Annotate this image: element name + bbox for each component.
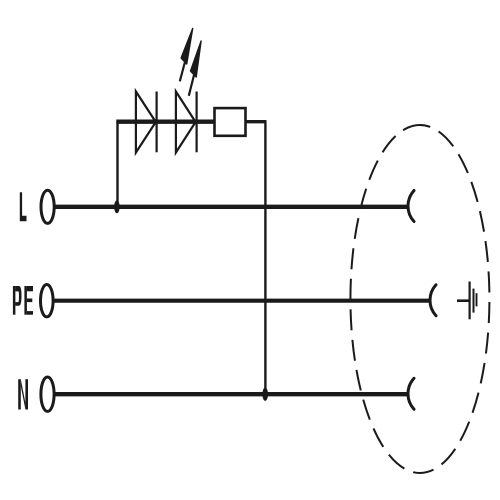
wire branch top right segment (246, 120, 267, 123)
socket contact L (408, 191, 414, 222)
diode D1 (136, 92, 157, 153)
terminal circle N (41, 377, 54, 411)
label N (18, 379, 28, 409)
LED arrow 1 (180, 28, 193, 81)
socket contact PE (430, 285, 436, 316)
wire PE line (53, 299, 431, 303)
label PE (13, 286, 33, 315)
wire left branch riser (116, 122, 118, 207)
wire right branch drop (264, 122, 266, 395)
junction node on N (262, 388, 268, 401)
wire L line (54, 205, 408, 209)
label L (20, 192, 27, 221)
wire branch top left segment (116, 120, 214, 124)
socket contact N (408, 378, 414, 409)
LED arrow 2 (189, 41, 201, 96)
junction node on L (114, 200, 120, 213)
resistor R1 (215, 108, 246, 136)
terminal circle L (41, 190, 54, 223)
terminal circle PE (41, 285, 54, 317)
wire N line (54, 392, 408, 396)
ground symbol (457, 282, 477, 320)
LED D2 (176, 92, 197, 153)
dashed plug outline ellipse (350, 125, 489, 473)
